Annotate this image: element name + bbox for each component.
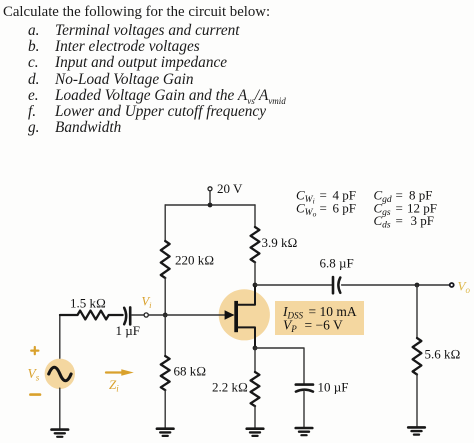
wire R220k to gate node xyxy=(164,278,166,315)
voltage source Vs xyxy=(28,347,76,395)
svg-text:Zi: Zi xyxy=(109,377,119,394)
svg-text:Vs: Vs xyxy=(28,366,40,383)
node junction gate xyxy=(163,313,168,318)
capacitor 6.8 uF xyxy=(320,256,354,294)
wire C6.8uF to Vo xyxy=(342,284,449,286)
node Vi terminal xyxy=(142,295,153,318)
annotation wiring capacitance values xyxy=(296,187,437,230)
resistor 3.9 kOhm xyxy=(251,227,298,262)
node junction top xyxy=(208,203,213,208)
node junction output xyxy=(415,283,420,288)
svg-text:2.2 kΩ: 2.2 kΩ xyxy=(212,380,248,395)
wire rail to R 220k xyxy=(164,205,166,241)
ground under Vs xyxy=(52,430,69,437)
ground under 10uF xyxy=(296,428,313,435)
svg-text:1.5 kΩ: 1.5 kΩ xyxy=(70,296,106,311)
annotation box IDSS VP xyxy=(275,301,364,335)
svg-text:6.8 µF: 6.8 µF xyxy=(320,256,354,271)
wire rail to R 3.9k xyxy=(254,205,256,227)
wire top rail xyxy=(165,204,255,206)
wire R68k to ground xyxy=(164,390,166,428)
wire Vs to R1.5k xyxy=(60,315,72,358)
wire 20V stub xyxy=(209,191,211,205)
svg-text:3.9 kΩ: 3.9 kΩ xyxy=(262,235,298,250)
resistor 220 kOhm xyxy=(161,241,214,278)
svg-text:1 µF: 1 µF xyxy=(116,323,140,338)
node Vo terminal xyxy=(450,279,471,296)
resistor 2.2 kOhm xyxy=(212,372,259,406)
transistor highlight circle xyxy=(219,289,270,340)
resistor 1.5 kOhm xyxy=(60,296,123,320)
svg-text:68 kΩ: 68 kΩ xyxy=(174,364,207,379)
capacitor 1 uF xyxy=(116,307,140,338)
svg-text:220 kΩ: 220 kΩ xyxy=(175,253,214,268)
resistor 5.6 kOhm xyxy=(413,338,461,375)
wire C1uF to Vi terminal xyxy=(132,314,144,316)
transistor JFET xyxy=(225,287,255,348)
wire gate node to R 68k xyxy=(164,315,166,356)
svg-text:10 µF: 10 µF xyxy=(318,380,349,395)
svg-text:5.6 kΩ: 5.6 kΩ xyxy=(425,347,461,362)
ground under 68k xyxy=(157,429,174,436)
wire Vi to gate xyxy=(149,314,233,316)
ground under 2.2k xyxy=(247,429,264,436)
ground under 5.6k xyxy=(408,427,425,434)
wire source to C10uF branch xyxy=(255,348,304,384)
wire Vs to ground xyxy=(59,388,61,429)
wire C10uF to ground xyxy=(303,392,305,428)
arrow Zi input impedance xyxy=(106,369,134,393)
wire drain node to C6.8uF xyxy=(255,284,332,286)
node junction source xyxy=(253,346,258,351)
wire R3.9k to drain node xyxy=(254,262,256,285)
wire R5.6k to ground xyxy=(416,374,418,427)
wire R2.2k to ground xyxy=(254,406,256,428)
wire source to R2.2k xyxy=(254,348,256,372)
wire output node to R5.6k xyxy=(416,285,418,338)
resistor 68 kOhm xyxy=(161,356,206,390)
node junction drain xyxy=(253,283,258,288)
capacitor 10 uF xyxy=(296,380,349,395)
svg-text:Vi: Vi xyxy=(142,295,153,310)
svg-text:Vo: Vo xyxy=(458,279,471,296)
supply terminal 20V xyxy=(208,181,243,196)
svg-text:20 V: 20 V xyxy=(217,181,243,196)
